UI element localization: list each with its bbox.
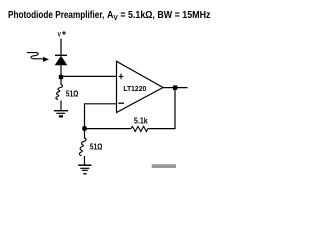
resistor R2 51 ohm (curly)	[79, 138, 86, 156]
wire R2 to ground	[84, 156, 86, 165]
wire node B down to resistor R2	[84, 130, 86, 139]
svg-text:Photodiode Preamplifier,: Photodiode Preamplifier,	[8, 9, 104, 20]
svg-text:LT1220: LT1220	[123, 86, 146, 93]
node A junction dot	[59, 75, 63, 79]
op-amp U1 LT1220	[117, 61, 164, 112]
wire V+ to photodiode cathode	[60, 39, 62, 56]
wire op-amp output	[163, 87, 188, 89]
svg-text:V: V	[58, 32, 62, 39]
wire R1 to ground	[60, 101, 62, 111]
wire node A to op-amp + input	[61, 75, 117, 77]
svg-text:51Ω: 51Ω	[90, 142, 103, 152]
svg-text:5.1k: 5.1k	[134, 116, 148, 126]
resistor R1 51 ohm (curly)	[56, 85, 63, 100]
op-amp - pin marking	[118, 102, 124, 104]
op-amp + pin marking	[119, 74, 124, 80]
ground GND2	[78, 165, 91, 174]
photodiode D1	[55, 55, 68, 65]
wire node B to feedback resistor	[85, 128, 132, 130]
output node junction dot	[173, 85, 178, 90]
svg-text:AV = 5.1kΩ, BW = 15MHz: AV = 5.1kΩ, BW = 15MHz	[107, 9, 211, 22]
svg-text:51Ω: 51Ω	[66, 89, 79, 99]
resistor R3 5.1k (zigzag)	[131, 126, 148, 131]
ground GND1	[54, 111, 68, 114]
wire node A down to resistor R1	[60, 78, 62, 85]
wire output node vertical	[174, 88, 176, 129]
wire feedback resistor to output node	[148, 128, 175, 130]
node B junction dot	[82, 126, 86, 130]
wire op-amp - input to node B	[85, 104, 117, 129]
watermark gray bar	[152, 164, 176, 168]
wire photodiode anode to node A	[60, 65, 62, 76]
light arrow into photodiode	[27, 53, 43, 59]
